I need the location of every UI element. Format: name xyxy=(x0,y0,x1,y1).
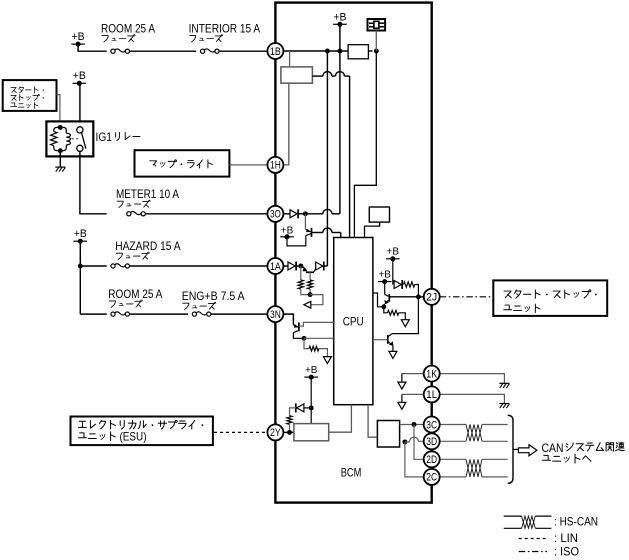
pin 1K xyxy=(424,366,440,382)
svg-text:1L: 1L xyxy=(426,389,437,401)
pin 2J xyxy=(424,289,440,305)
wire CAN-H branch to pin 2D xyxy=(414,425,424,460)
wire twisted pair to bracket (3D) xyxy=(482,440,508,442)
wire pin 3D to twisted pair xyxy=(440,440,466,442)
svg-text:BCM: BCM xyxy=(341,466,362,480)
transistor Q4 (2J) xyxy=(385,295,390,297)
component box B3 (CAN transceiver) xyxy=(377,421,399,448)
node junction 3O diode out xyxy=(303,211,308,216)
svg-text:+B: +B xyxy=(72,31,85,43)
node junction 1B rail / line-327 xyxy=(325,49,330,54)
wire pin 2D to twisted pair xyxy=(440,458,466,460)
wire CPU to Q5 base xyxy=(373,339,388,341)
wire R4 to 2Y rail xyxy=(289,424,291,432)
wire Q3 emitter down xyxy=(293,333,303,339)
wire noise filter stem xyxy=(375,31,377,52)
node junction 1B rail / +B line-340 xyxy=(337,49,342,54)
wire twisted pair to bracket (3C) xyxy=(482,424,508,426)
bracket (CAN group) xyxy=(508,415,513,483)
node junction 2Y/R4 xyxy=(287,430,292,435)
wire D4 to resistor R4 xyxy=(290,408,296,416)
transistor Q2 (1A) xyxy=(301,266,307,271)
wire HAZARD fuse to pin 1A xyxy=(129,265,267,267)
wire R5 to 2J node xyxy=(415,285,419,297)
wire +B to relay switch contact xyxy=(79,83,81,127)
wire Q3 collector to CPU xyxy=(299,322,334,326)
resistor R2 (Q2 base) xyxy=(309,272,311,280)
wire map light to pin 1H xyxy=(229,164,267,166)
signal arrow down (R3) xyxy=(323,357,331,364)
component R internal (1B rail series box) xyxy=(348,45,368,59)
pin 1L xyxy=(424,386,440,402)
wire pin 1K right to ground xyxy=(440,374,505,384)
pin 1A xyxy=(267,258,283,274)
relay IG1 switch contacts xyxy=(77,127,83,133)
wire +B down to ROOM/ENG row xyxy=(79,266,81,314)
svg-text:2C: 2C xyxy=(426,472,437,484)
wire pin 3C to twisted pair xyxy=(440,424,466,426)
node junction 2J rail xyxy=(416,294,421,299)
wire pin 3N to Q3 xyxy=(283,314,293,325)
node junction 1A diode out xyxy=(298,264,303,269)
wire pin 1L left to arrow xyxy=(402,393,424,395)
wire dashed LIN ESU to pin 2Y xyxy=(214,431,267,433)
svg-text:+B: +B xyxy=(333,11,346,23)
label fuse katakana (HAZARD) xyxy=(116,252,149,259)
svg-text:: HS-CAN: : HS-CAN xyxy=(554,514,598,528)
legend ISO dash-dot line xyxy=(519,551,547,553)
wire line-327 vertical xyxy=(326,51,328,266)
node junction D4/+B xyxy=(309,405,314,410)
relay IG1 coil bottom node xyxy=(58,148,63,153)
label start-stop right line1 xyxy=(504,290,597,298)
wire +B down to D4 node xyxy=(310,377,312,408)
CPU block xyxy=(334,238,373,405)
wire twisted pair to bracket (2C) xyxy=(482,476,508,478)
box start-stop unit (right) xyxy=(493,280,607,316)
label fuse katakana (METER1) xyxy=(117,200,150,207)
wire 2J node down to Q5 xyxy=(392,297,418,334)
relay IG1 parallel loop frame xyxy=(54,127,61,150)
wire CAN-L branch to pin 2C xyxy=(405,442,424,477)
component noise filter (top symbol) xyxy=(368,19,386,31)
svg-text:ENG+B 7.5 A: ENG+B 7.5 A xyxy=(182,289,245,303)
wire box B1 output over crossings to CPU xyxy=(312,75,323,77)
wire D4 node into box B2 xyxy=(310,408,312,424)
wire CAN-L to pin 3D over crossing xyxy=(405,437,424,442)
svg-text:+B: +B xyxy=(74,228,87,240)
ground (1K) xyxy=(499,382,509,384)
BCM module outline box xyxy=(275,3,431,503)
box electrical supply unit (ESU) xyxy=(71,417,213,446)
node junction 1B rail / line-377 xyxy=(374,49,379,54)
wire Q4 base rail to 2J xyxy=(389,296,423,298)
svg-text:+B: +B xyxy=(387,246,400,258)
component box B2 (2Y driver) xyxy=(294,424,329,441)
pin 3D xyxy=(424,433,440,449)
wire ENG+B fuse to pin 3N xyxy=(211,313,268,315)
svg-text:3N: 3N xyxy=(270,309,281,321)
node junction CAN-L xyxy=(402,439,407,444)
wire pin 1L right to ground xyxy=(440,394,505,403)
node junction Q4 emitter xyxy=(381,304,386,309)
fuse ROOM 25 A (row 1) xyxy=(115,49,126,52)
pin 3N xyxy=(267,306,283,322)
wire twisted pair to bracket (2D) xyxy=(482,458,508,460)
label fuse katakana (row1 ROOM) xyxy=(102,35,135,42)
svg-text:INTERIOR 15 A: INTERIOR 15 A xyxy=(189,22,261,36)
wire ROOM row from +B xyxy=(80,313,106,315)
fuse INTERIOR 15 A xyxy=(204,49,215,52)
label start-stop unit line2 xyxy=(11,94,44,100)
ground (1L) xyxy=(499,403,509,405)
pin 2C xyxy=(424,469,440,485)
wire to signal flag xyxy=(310,295,323,305)
resistor R4 (2Y) xyxy=(287,416,292,425)
label fuse katakana (ENG+B) xyxy=(183,302,216,309)
wire D3 to line-327 xyxy=(324,265,327,267)
transistor Q3 (3N) xyxy=(293,325,298,328)
signal arrow down (1L) xyxy=(398,402,406,409)
wire box to node 377 xyxy=(368,50,372,52)
svg-text:+B: +B xyxy=(378,268,391,280)
svg-text:+B: +B xyxy=(73,70,86,82)
wire 1B branch to relay box B1 xyxy=(289,51,291,67)
relay IG1 coil top node xyxy=(58,125,63,130)
wire Q3 emitter to CPU xyxy=(304,337,334,339)
transistor Q1 (3O) xyxy=(304,214,306,229)
wire HAZARD row to fuse xyxy=(80,265,106,267)
svg-text:3O: 3O xyxy=(270,209,281,221)
pin 1B xyxy=(267,43,283,59)
label ESU line1 xyxy=(78,420,203,429)
label ESU line2 xyxy=(78,432,115,441)
component box R7 (osc) xyxy=(369,207,389,222)
svg-text:3C: 3C xyxy=(426,419,437,431)
diode D4 (2Y) xyxy=(297,404,304,412)
svg-text:1H: 1H xyxy=(270,160,281,172)
diode D1 (pin 3O) xyxy=(283,213,290,215)
label start-stop unit line1 xyxy=(11,87,44,93)
fuse ROOM 25 A (row 3N) xyxy=(115,312,126,315)
wire pin 2C to twisted pair xyxy=(440,476,466,478)
twisted pair HS-CAN (3C/3D) xyxy=(466,425,482,442)
relay IG1 switch blade xyxy=(82,133,86,149)
label start-stop unit line3 xyxy=(11,102,38,108)
svg-text:1B: 1B xyxy=(270,46,281,58)
node junction HAZARD row xyxy=(78,264,83,269)
wire CPU stub to Q4 emitter xyxy=(373,293,384,307)
wire INTERIOR fuse to pin 1B xyxy=(219,50,268,52)
svg-text:3D: 3D xyxy=(426,436,437,448)
wire METER1 fuse to pin 3O xyxy=(146,213,268,215)
diode D3 (Q2 collector) xyxy=(316,262,323,270)
svg-text:(ESU): (ESU) xyxy=(120,429,147,443)
pin 3O xyxy=(267,206,283,222)
wire CAN-L out xyxy=(399,441,402,443)
svg-text:CPU: CPU xyxy=(343,315,364,329)
svg-text:2D: 2D xyxy=(426,454,437,466)
fuse HAZARD 15 A xyxy=(115,264,126,267)
component internal box B1 (1B/1H) xyxy=(281,67,313,83)
wire dash-dot ISO pin 2J to start-stop unit xyxy=(440,296,494,298)
wire box B2 to CPU bottom xyxy=(329,405,352,433)
label map light xyxy=(150,160,213,168)
wire Q1 base to CPU xyxy=(312,232,323,234)
label fuse katakana (row1 INTERIOR) xyxy=(190,35,223,42)
wire relay switch to METER1 fuse row xyxy=(80,151,107,213)
wire +B down to Q4 xyxy=(384,282,386,295)
wire pin 2Y to box B2 xyxy=(283,431,294,433)
inductor relay IG1 coil xyxy=(66,133,70,145)
svg-text:2J: 2J xyxy=(426,292,437,304)
signal arrow down (Q5 emitter) xyxy=(389,351,397,358)
signal arrow down (R6) xyxy=(401,320,409,327)
node junction CAN-H xyxy=(412,422,417,427)
wire start-stop unit to relay coil xyxy=(57,95,60,127)
svg-text:: LIN: : LIN xyxy=(554,531,578,545)
wire ROOM fuse to ENG+B fuse xyxy=(129,313,188,315)
relay IG1 box xyxy=(46,121,93,156)
signal arrow down (1K) xyxy=(398,382,406,389)
resistor R5 (2J) xyxy=(404,282,415,287)
wire pin 1B internal rail xyxy=(283,50,348,52)
label CAN system line2 xyxy=(543,454,591,463)
transistor Q5 (2J low) xyxy=(388,334,393,337)
legend twisted pair wires xyxy=(504,515,522,517)
label fuse katakana (ROOM 3N) xyxy=(109,300,142,307)
wire +B down to D5 xyxy=(392,259,394,285)
resistor R1 (1A) xyxy=(300,266,302,280)
legend twisted pair symbol xyxy=(522,516,536,528)
wire line-377 down xyxy=(354,51,376,238)
svg-text:2Y: 2Y xyxy=(270,427,281,439)
wire +B to ROOM fuse (row 1) xyxy=(78,44,107,51)
svg-text:IG1: IG1 xyxy=(96,130,113,144)
wire ROOM fuse to INTERIOR fuse xyxy=(129,50,196,52)
diode D2 (pin 1A) xyxy=(283,265,288,267)
wire pin 1K left to arrow xyxy=(402,373,424,375)
wire +B down to HAZARD row xyxy=(79,241,81,266)
block arrow (to CAN units) xyxy=(518,445,537,456)
svg-text:1K: 1K xyxy=(426,368,437,380)
box start-stop unit (top left) xyxy=(3,80,57,111)
ground (relay coil) xyxy=(55,166,65,168)
wire relay coil to ground xyxy=(59,153,61,167)
resistor R3 (3N) xyxy=(304,338,309,348)
legend LIN dashed line xyxy=(519,538,547,540)
fuse ENG+B 7.5 A xyxy=(196,312,207,315)
wire CAN-H to pin 3C xyxy=(400,424,424,426)
svg-text:CAN: CAN xyxy=(542,441,564,455)
node junction R1/R2 xyxy=(308,292,313,297)
pin 1H xyxy=(267,157,283,173)
pin 3C xyxy=(424,417,440,433)
signal flag (1A sense) xyxy=(304,301,311,308)
wire pin 1H up to box B1 xyxy=(283,83,288,165)
wire +B340 down to 3O diode rail xyxy=(339,24,341,214)
diode D5 (2J) xyxy=(394,281,401,289)
wire 3O rail to +B line-340 xyxy=(305,213,323,215)
wire CPU to CAN box xyxy=(368,405,377,438)
box map light xyxy=(135,150,230,176)
svg-text:ROOM 25 A: ROOM 25 A xyxy=(108,287,162,301)
svg-text:METER1 10 A: METER1 10 A xyxy=(116,187,179,201)
wire R7 to CPU top xyxy=(365,222,380,237)
twisted pair HS-CAN (2D/2C) xyxy=(466,459,482,477)
svg-text:1A: 1A xyxy=(270,261,281,273)
svg-text:HAZARD 15 A: HAZARD 15 A xyxy=(115,239,180,253)
svg-text:: ISO: : ISO xyxy=(554,545,579,559)
svg-text:ROOM 25 A: ROOM 25 A xyxy=(101,22,155,36)
resistor R6 (Q4 emitter) xyxy=(384,307,388,313)
relay IG1 coil-switch dashed link xyxy=(72,138,79,140)
node junction Q3 emitter xyxy=(302,336,307,341)
svg-text:+B: +B xyxy=(305,364,318,376)
label start-stop right line2 xyxy=(504,304,540,312)
pin 2D xyxy=(424,451,440,467)
resistor relay IG1 (parallel) xyxy=(51,132,57,146)
fuse METER1 10 A xyxy=(130,212,141,215)
wire +B to Q1 xyxy=(287,236,306,246)
pin 2Y xyxy=(267,424,283,440)
